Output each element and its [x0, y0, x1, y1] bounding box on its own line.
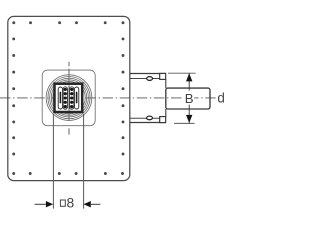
screw hole dots: right column — [122, 37, 125, 155]
label B — [185, 91, 194, 106]
outlet pipe — [166, 88, 210, 109]
grate middle column 1 — [63, 87, 67, 109]
square-8 dimension right arrow — [91, 203, 101, 205]
label 8 — [67, 196, 75, 211]
label B background mask — [184, 91, 194, 104]
mounting plate (rounded square flange) — [8, 16, 130, 180]
screw hole dots: top row — [12, 21, 124, 24]
outlet top end block — [160, 73, 166, 79]
dimension B line — [188, 73, 190, 123]
square-8 dimension extension lines — [53, 114, 83, 209]
dimension B extension lines — [168, 73, 196, 123]
clamping ring concentric circles — [46, 75, 92, 121]
label d — [217, 90, 224, 105]
screw hole dots: left column — [12, 37, 15, 155]
screw hole dots: bottom row — [12, 172, 124, 175]
svg-text:B: B — [185, 91, 194, 106]
svg-text:d: d — [217, 90, 224, 105]
svg-text:8: 8 — [67, 196, 75, 211]
outlet bottom end block — [160, 117, 166, 123]
horizontal centerline (dash-dot) — [0, 97, 216, 99]
grate middle column 2 — [70, 87, 74, 109]
drain body rounded square — [42, 70, 95, 126]
vertical centerline over grate — [68, 85, 70, 111]
label square symbol — [60, 200, 65, 206]
outlet housing top rail — [130, 74, 166, 79]
square-8 dimension left arrow — [35, 203, 46, 205]
vertical centerline of drain — [68, 62, 70, 135]
dimension B arrow down — [186, 115, 192, 123]
outlet bottom clip — [147, 116, 153, 120]
grate right slot capsule — [74, 87, 78, 109]
outlet right connectors — [165, 79, 167, 116]
dimension B arrow up — [186, 73, 192, 81]
outlet housing bottom rail — [130, 118, 166, 122]
grate frame (square) — [55, 84, 83, 112]
grate left slot capsule — [58, 87, 62, 109]
outlet top clip — [147, 77, 153, 81]
